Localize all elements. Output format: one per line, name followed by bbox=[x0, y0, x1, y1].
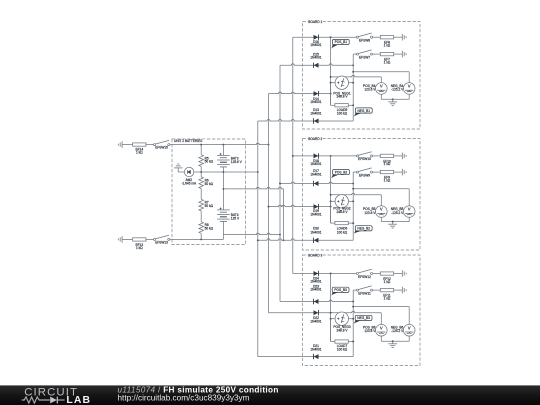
wire POS_NEG1 left lead bbox=[330, 82, 336, 84]
svg-text:BOARD 2: BOARD 2 bbox=[308, 137, 322, 141]
wire LOAD6 right lead bbox=[348, 222, 354, 224]
ground after EF7 bbox=[402, 51, 406, 58]
wire NEG_B4 top lead bbox=[408, 72, 410, 83]
wire EFSW11 to EF11 bbox=[373, 289, 381, 291]
ground (earth) below voltmeters bbox=[388, 344, 397, 348]
svg-text:123.6 V: 123.6 V bbox=[364, 88, 376, 92]
label NEG_B4 value bbox=[391, 84, 404, 92]
wire bus1 to D21 row bbox=[258, 356, 353, 358]
label EF9 bbox=[384, 176, 391, 183]
dashed box UNIT 2 BATTERIES bbox=[172, 139, 246, 245]
voltmeter NEG_B4 bbox=[403, 83, 415, 95]
wire voltmeter common bbox=[381, 340, 409, 342]
svg-text:50 kΩ: 50 kΩ bbox=[205, 227, 214, 231]
wire bus3 to D15 row bbox=[280, 64, 354, 66]
ground after EF8 bbox=[402, 34, 406, 41]
label POS_NEG1 value bbox=[333, 92, 350, 99]
wire EFSW7 to EF7 bbox=[373, 53, 381, 55]
svg-text:POS_B1: POS_B1 bbox=[335, 40, 348, 44]
label EFSW12 bbox=[358, 275, 371, 279]
voltmeter NEG_B5 bbox=[403, 206, 415, 218]
svg-text:1 kΩ: 1 kΩ bbox=[136, 151, 143, 155]
svg-text:1 kΩ: 1 kΩ bbox=[384, 296, 391, 300]
fuse EF9 bbox=[380, 170, 393, 173]
wire R7 to R8 bbox=[200, 211, 202, 222]
fuse EF12 bbox=[380, 272, 393, 275]
wire EF9 to ground bbox=[394, 171, 403, 173]
wire EFSW11 stub bbox=[353, 289, 356, 291]
switch EFSW12 bbox=[356, 269, 372, 274]
label EFSW9 bbox=[359, 173, 370, 177]
wire EF10 to ground bbox=[394, 155, 403, 157]
ground (earth) below voltmeters bbox=[388, 224, 397, 228]
wire POS feed line bbox=[330, 193, 382, 195]
dashed box BOARD 2 bbox=[303, 139, 421, 251]
wire POS_B6 top lead bbox=[380, 313, 382, 325]
wire POS_B5 bottom lead bbox=[380, 217, 382, 221]
label EF13 value bbox=[135, 243, 143, 250]
wire bus2 vertical bbox=[268, 94, 270, 313]
resistor LOAD5 bbox=[335, 104, 348, 107]
fuse EF14 bbox=[133, 143, 146, 146]
svg-text:UNIT 2 BATTERIES: UNIT 2 BATTERIES bbox=[174, 139, 202, 143]
wire POS_B5 top lead bbox=[380, 195, 382, 206]
wire NEG_B5 bottom lead bbox=[408, 217, 410, 221]
voltmeter POS_NEG3 bbox=[335, 312, 348, 325]
node POS_B3 tag bbox=[331, 287, 349, 295]
resistor LOAD7 bbox=[335, 340, 348, 343]
svg-text:LAB: LAB bbox=[66, 395, 91, 405]
fuse EF11 bbox=[380, 289, 393, 292]
svg-text:1N4001: 1N4001 bbox=[310, 111, 321, 115]
svg-text:1N4001: 1N4001 bbox=[310, 162, 321, 166]
battery BAT3 plus mark bbox=[220, 153, 222, 155]
wire ground stub bbox=[392, 222, 394, 225]
wire mid bus vertical bbox=[283, 189, 285, 241]
diode D14 bbox=[314, 91, 319, 96]
svg-text:1N4001: 1N4001 bbox=[310, 55, 321, 59]
wire bus2 to D19 row bbox=[268, 205, 332, 207]
label LOAD7 value bbox=[337, 344, 348, 351]
label BOARD 1 bbox=[308, 20, 323, 24]
label POS_B4 value bbox=[363, 84, 376, 92]
label NEG_B5 value bbox=[391, 207, 404, 215]
label BOARD 3 bbox=[308, 253, 323, 257]
svg-text:1N4001: 1N4001 bbox=[310, 347, 321, 351]
label D22 bbox=[310, 316, 321, 323]
label EFSW11 bbox=[358, 291, 371, 295]
label D20 bbox=[310, 227, 321, 235]
label D21 bbox=[310, 344, 321, 351]
wire LOAD7 left lead bbox=[331, 319, 335, 342]
label LOAD6 value bbox=[337, 227, 348, 235]
svg-text:100 kΩ: 100 kΩ bbox=[337, 230, 348, 234]
label BOARD 2 bbox=[308, 137, 323, 141]
label UNIT 2 BATTERIES bbox=[173, 139, 207, 143]
svg-text:1N4001: 1N4001 bbox=[310, 287, 321, 291]
svg-text:POS_B2: POS_B2 bbox=[335, 170, 348, 174]
wire node POS_B2 vertical bbox=[330, 156, 332, 223]
label EF11 bbox=[383, 294, 391, 301]
wire EF7 to ground bbox=[394, 53, 403, 55]
svg-text:50 kΩ: 50 kΩ bbox=[205, 204, 214, 208]
svg-text:248.8 V: 248.8 V bbox=[337, 210, 349, 214]
label BAT4 value bbox=[231, 213, 240, 221]
wire bus4 vertical bbox=[292, 37, 294, 273]
label D23 bbox=[310, 284, 321, 291]
battery BAT4 bbox=[217, 210, 230, 222]
svg-text:EFSW8: EFSW8 bbox=[359, 39, 370, 43]
svg-text:NEG_B1: NEG_B1 bbox=[358, 109, 371, 113]
ground (earth) for AM2 bbox=[174, 164, 183, 168]
wire NEG_B6 bottom lead bbox=[408, 336, 410, 341]
wire EF13 row left bbox=[122, 238, 132, 240]
diode D23 bbox=[314, 299, 319, 304]
svg-text:EFSW10: EFSW10 bbox=[358, 157, 371, 161]
wire EF11 to ground bbox=[394, 289, 403, 291]
wire EFSW8 to EF8 bbox=[373, 36, 381, 38]
voltmeter POS_B6 bbox=[376, 324, 388, 336]
label POS_B6 value bbox=[363, 325, 376, 333]
svg-text:125.6 V: 125.6 V bbox=[231, 160, 243, 164]
label D16 bbox=[310, 40, 321, 47]
wire BAT4 bottom lead bbox=[222, 221, 224, 234]
wire EFSW13 into battery box (bottom wire) bbox=[170, 238, 224, 240]
resistor LOAD6 bbox=[335, 221, 348, 224]
svg-text:1 kΩ: 1 kΩ bbox=[384, 162, 391, 166]
svg-text:EFSW11: EFSW11 bbox=[358, 291, 371, 295]
wire LOAD7 right lead bbox=[348, 341, 354, 343]
diode D22 bbox=[314, 310, 319, 315]
switch EFSW9 bbox=[356, 168, 372, 173]
wire battery mid tap to mid bus bbox=[223, 187, 283, 189]
voltmeter POS_NEG2 bbox=[335, 195, 348, 208]
footer url line bbox=[118, 394, 250, 403]
wire AM2 ground lead bbox=[178, 168, 184, 172]
label EFSW15 bbox=[155, 145, 168, 149]
battery BAT3 bbox=[217, 155, 230, 167]
wire bus1 to D20 row bbox=[257, 239, 353, 241]
svg-text:-125.2 V: -125.2 V bbox=[391, 88, 404, 92]
svg-text:1N4001: 1N4001 bbox=[310, 319, 321, 323]
svg-text:123.6 V: 123.6 V bbox=[364, 211, 376, 215]
voltmeter POS_NEG1 bbox=[335, 76, 348, 89]
diode D20 bbox=[314, 238, 319, 243]
wire AM2 to chain and bus1 (node B) bbox=[194, 171, 259, 173]
wire NEG_B4 bottom lead bbox=[408, 94, 410, 99]
CircuitLab logo text LAB bbox=[66, 395, 91, 405]
fuse EF13 bbox=[133, 238, 146, 241]
label EF10 bbox=[383, 159, 391, 166]
resistor R6 bbox=[199, 177, 204, 189]
diode D16 bbox=[314, 35, 319, 40]
svg-text:248.8 V: 248.8 V bbox=[337, 95, 349, 99]
svg-text:123.6 V: 123.6 V bbox=[364, 329, 376, 333]
wire ground stub bbox=[392, 99, 394, 102]
wire LOAD5 left lead bbox=[331, 83, 335, 106]
label D15 bbox=[310, 52, 321, 59]
wire LOAD5 right lead bbox=[348, 104, 354, 106]
wire POS feed line (D22 row) bbox=[269, 311, 382, 313]
wire bus1 vertical bbox=[257, 121, 259, 357]
svg-text:EFSW13: EFSW13 bbox=[155, 241, 168, 245]
switch EFSW8 bbox=[356, 33, 372, 38]
wire POS feed line bbox=[330, 75, 382, 77]
ammeter AM2 bbox=[184, 167, 193, 176]
svg-text:-125.2 V: -125.2 V bbox=[391, 211, 404, 215]
label EF14 value bbox=[135, 148, 143, 155]
svg-text:1N4001: 1N4001 bbox=[310, 230, 321, 234]
wire battery bottom corner bbox=[222, 235, 224, 240]
svg-text:-125.2 V: -125.2 V bbox=[391, 329, 404, 333]
voltmeter NEG_B6 bbox=[403, 324, 415, 336]
wire POS_B4 top lead bbox=[380, 77, 382, 83]
label D17 bbox=[310, 169, 321, 177]
wire POS_B4 bottom lead bbox=[380, 94, 382, 99]
wire bus4 to D16 row bbox=[293, 36, 357, 38]
wire R8 bottom lead bbox=[200, 233, 202, 239]
svg-text:BOARD 3: BOARD 3 bbox=[308, 253, 322, 257]
wire EFSW12 to EF12 bbox=[373, 273, 381, 275]
node NEG_B2 tag bbox=[353, 226, 372, 234]
svg-text:1N4001: 1N4001 bbox=[310, 279, 321, 283]
wire NEG feed line bbox=[352, 306, 409, 308]
node POS_B1 tag bbox=[331, 39, 349, 48]
label EFSW13 bbox=[155, 241, 168, 245]
wire EFSW10 to EF10 bbox=[373, 155, 381, 157]
battery BAT4 plus mark bbox=[220, 207, 222, 209]
label R5 value bbox=[205, 157, 214, 164]
resistor R8 bbox=[199, 222, 204, 234]
battery BAT3 top lead bbox=[222, 145, 224, 156]
svg-text:http://circuitlab.com/c3uc839y: http://circuitlab.com/c3uc839y3y3ym bbox=[118, 394, 250, 403]
wire chain top lead bbox=[200, 145, 202, 155]
wire voltmeter common bbox=[381, 98, 409, 100]
label D18 bbox=[310, 159, 321, 166]
svg-text:EFSW9: EFSW9 bbox=[359, 173, 370, 177]
diode D19 bbox=[314, 204, 319, 209]
wire LOAD6 left lead bbox=[331, 201, 335, 223]
node POS_B2 tag bbox=[331, 170, 350, 179]
label D13 bbox=[310, 108, 321, 115]
label R7 value bbox=[205, 200, 214, 207]
svg-text:100 kΩ: 100 kΩ bbox=[337, 347, 348, 351]
dashed box BOARD 3 bbox=[303, 255, 421, 366]
CircuitLab logo resistor-diode glyph bbox=[22, 397, 65, 404]
label EFSW7 bbox=[359, 55, 370, 59]
resistor R5 bbox=[199, 155, 204, 167]
voltmeter POS_B5 bbox=[376, 206, 388, 218]
wire POS_NEG3 left lead bbox=[330, 318, 336, 320]
wire EFSW7 stub bbox=[353, 53, 356, 55]
svg-text:50 kΩ: 50 kΩ bbox=[205, 160, 214, 164]
wire EF12 to ground bbox=[394, 273, 403, 275]
fuse EF8 bbox=[380, 36, 393, 39]
svg-text:1N4001: 1N4001 bbox=[310, 213, 321, 217]
wire node NEG_B3 vertical bbox=[352, 290, 354, 357]
wire EF14 to EFSW15 bbox=[146, 144, 154, 146]
svg-text:1N4001: 1N4001 bbox=[310, 43, 321, 47]
label BAT3 value bbox=[231, 157, 243, 165]
ground (earth) left of EF14 bbox=[118, 141, 122, 148]
wire NEG_B5 top lead bbox=[408, 189, 410, 206]
label POS_NEG2 value bbox=[333, 207, 350, 214]
svg-text:EFSW12: EFSW12 bbox=[358, 275, 371, 279]
ground (earth) below voltmeters bbox=[388, 102, 397, 106]
switch EFSW7 bbox=[356, 50, 372, 55]
label D24 bbox=[310, 276, 321, 283]
svg-text:EFSW15: EFSW15 bbox=[155, 145, 168, 149]
label POS_B5 value bbox=[363, 207, 376, 215]
CircuitLab logo text CIRCUIT bbox=[24, 387, 78, 399]
switch EFSW10 bbox=[356, 152, 372, 157]
node NEG_B1 tag bbox=[353, 108, 372, 117]
svg-text:EFSW7: EFSW7 bbox=[359, 55, 370, 59]
wire POS_B6 bottom lead bbox=[380, 336, 382, 341]
wire bus2 to D14 row bbox=[269, 92, 332, 94]
wire bus3 to D17 row bbox=[279, 182, 354, 184]
label D19 bbox=[310, 209, 321, 216]
label EFSW8 bbox=[359, 39, 370, 43]
diode D18 bbox=[314, 153, 319, 158]
wire EFSW15 into battery box (top wire) bbox=[170, 143, 270, 145]
fuse EF10 bbox=[380, 154, 393, 157]
dashed box BOARD 1 bbox=[303, 22, 421, 130]
wire bus3 vertical bbox=[279, 65, 281, 301]
label LOAD5 value bbox=[337, 108, 348, 115]
label AM2 value bbox=[181, 178, 197, 186]
svg-text:1 kΩ: 1 kΩ bbox=[384, 178, 391, 182]
wire EF8 to ground bbox=[394, 36, 403, 38]
fuse EF7 bbox=[380, 53, 393, 56]
wire node POS_B1 vertical bbox=[330, 37, 332, 105]
wire voltmeter common bbox=[381, 221, 409, 223]
wire EFSW9 to EF9 bbox=[373, 171, 381, 173]
label POS_NEG3 value bbox=[333, 325, 350, 332]
resistor R7 bbox=[199, 199, 204, 211]
wire NEG_B6 top lead bbox=[408, 307, 410, 325]
wire ground stub bbox=[392, 341, 394, 344]
svg-text:1 kΩ: 1 kΩ bbox=[384, 60, 391, 64]
label R6 value bbox=[205, 179, 214, 187]
wire POS_NEG2 right lead bbox=[348, 200, 354, 202]
svg-text:50 kΩ: 50 kΩ bbox=[205, 182, 214, 186]
svg-text:1 kΩ: 1 kΩ bbox=[384, 280, 391, 284]
svg-text:-1.645 mA: -1.645 mA bbox=[181, 182, 197, 186]
diode D13 bbox=[314, 118, 319, 123]
wire node NEG_B1 vertical bbox=[352, 54, 354, 121]
ground after EF11 bbox=[402, 287, 406, 294]
footer bar bbox=[0, 0, 1, 1]
label EF8 bbox=[384, 41, 391, 48]
label EF7 bbox=[384, 58, 391, 65]
switch EFSW15 bbox=[154, 140, 170, 145]
ground (earth) left of EF13 bbox=[118, 236, 122, 243]
svg-text:NEG_B3: NEG_B3 bbox=[357, 316, 370, 320]
voltmeter POS_B4 bbox=[376, 83, 388, 95]
footer title line bbox=[118, 385, 279, 394]
diode D21 bbox=[314, 354, 319, 359]
wire POS_NEG3 right lead bbox=[348, 318, 354, 320]
wire R5 to R6 (node AM2) bbox=[200, 166, 202, 177]
wire R6 to R7 bbox=[200, 189, 202, 200]
label D14 bbox=[310, 97, 321, 104]
wire bus4 to D18 row bbox=[292, 155, 356, 157]
svg-text:POS_B3: POS_B3 bbox=[334, 288, 347, 292]
wire EF13 to EFSW13 bbox=[146, 238, 154, 240]
label EF12 bbox=[383, 277, 391, 284]
wire battery bottom to bus3 bbox=[223, 233, 281, 235]
wire bus4 to D24 row bbox=[293, 273, 357, 275]
switch EFSW11 bbox=[356, 286, 372, 291]
wire NEG feed line bbox=[352, 188, 409, 190]
svg-text:125 V: 125 V bbox=[231, 217, 240, 221]
node NEG_B3 tag bbox=[353, 315, 372, 323]
wire bus1 to D13 row bbox=[258, 120, 353, 121]
wire bus3 to D23 row bbox=[280, 300, 354, 302]
ground after EF9 bbox=[402, 169, 406, 176]
svg-text:1 kΩ: 1 kΩ bbox=[136, 246, 143, 250]
switch EFSW13 bbox=[154, 235, 170, 240]
ground after EF10 bbox=[402, 153, 406, 160]
wire NEG feed line bbox=[352, 71, 409, 73]
svg-text:BOARD 1: BOARD 1 bbox=[308, 20, 322, 24]
wire node NEG_B2 vertical bbox=[352, 172, 354, 240]
svg-text:1 kΩ: 1 kΩ bbox=[384, 44, 391, 48]
wire POS_NEG1 right lead bbox=[348, 82, 354, 84]
label NEG_B6 value bbox=[391, 325, 404, 333]
svg-text:1N4001: 1N4001 bbox=[310, 100, 321, 104]
label EFSW10 bbox=[358, 157, 371, 161]
diode D17 bbox=[314, 181, 319, 186]
wire node POS_B3 vertical bbox=[330, 274, 332, 342]
svg-text:100 kΩ: 100 kΩ bbox=[337, 111, 348, 115]
wire EFSW9 stub bbox=[353, 171, 356, 173]
svg-text:1N4001: 1N4001 bbox=[310, 172, 321, 176]
svg-text:248.8 V: 248.8 V bbox=[337, 329, 349, 333]
ground after EF12 bbox=[402, 270, 406, 277]
svg-text:NEG_B2: NEG_B2 bbox=[357, 227, 370, 231]
diode D15 bbox=[314, 63, 319, 68]
wire POS_NEG2 left lead bbox=[330, 200, 336, 202]
label R8 value bbox=[205, 223, 214, 230]
wire battery mid bbox=[222, 167, 224, 210]
wire EF14 row left bbox=[122, 144, 132, 146]
diode D24 bbox=[314, 271, 319, 276]
